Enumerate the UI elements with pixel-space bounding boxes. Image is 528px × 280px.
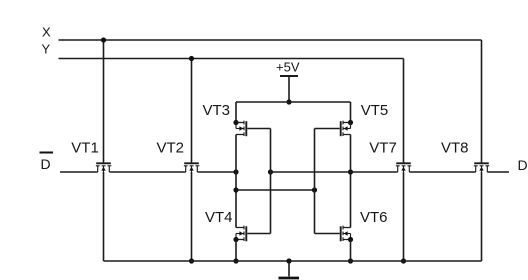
wire VT1 to VT2: [109, 171, 185, 173]
node A chain VT3-VT4: [235, 135, 237, 228]
wire cross-coupling A to VT5 VT6 gates: [236, 189, 315, 191]
svg-text:VT6: VT6: [360, 209, 388, 226]
transistor VT1: [71, 139, 111, 172]
wire VT5 gate lead: [315, 128, 340, 130]
wire rail to VT3 drain: [235, 102, 237, 123]
wire VT2 to node A: [197, 171, 236, 173]
wire VT2 gate from Y: [191, 59, 193, 163]
wire VT8 body to ground rail: [481, 172, 483, 261]
svg-text:X: X: [42, 24, 51, 39]
wire node B to VT7: [271, 171, 398, 173]
wire VT4 source to rail: [235, 240, 237, 262]
transistor VT8: [441, 139, 489, 172]
wire bottom ground rail: [104, 260, 482, 262]
junction node A line2: [233, 187, 238, 192]
power +5V terminal: [280, 75, 298, 77]
junction node A bus: [233, 169, 238, 174]
junction line2 gates A: [312, 187, 317, 192]
wire VT7 gate from Y: [403, 59, 405, 163]
node B chain VT5-VT6: [350, 135, 352, 228]
wire +5V to top rail: [288, 76, 290, 102]
transistor VT5: [341, 102, 389, 136]
wire VT8 gate from X: [481, 40, 483, 163]
transistor VT2: [157, 139, 200, 172]
wire gates vertical VT5 VT6: [314, 129, 316, 234]
svg-text:Y: Y: [42, 41, 51, 56]
ground: [279, 277, 300, 280]
transistor VT6: [341, 209, 388, 241]
wire VT4 gate lead: [247, 233, 270, 235]
svg-text:VT8: VT8: [441, 139, 469, 156]
junction VT3 drain-body: [233, 120, 238, 125]
svg-text:VT7: VT7: [369, 139, 397, 156]
junction Y-VT2: [189, 56, 194, 61]
wire VT8 to D output: [487, 171, 509, 173]
wire VT7 to VT8: [409, 171, 475, 173]
wire X line: [59, 39, 482, 41]
wire rail to VT5 drain: [350, 102, 352, 123]
junction VT5 drain-body: [348, 120, 353, 125]
svg-text:VT2: VT2: [157, 139, 185, 156]
junction VT7 body-rail: [401, 258, 406, 263]
wire gates vertical VT3 VT4: [270, 129, 272, 234]
wire VT2 body to ground rail: [191, 172, 193, 261]
junction VT6-rail: [348, 258, 353, 263]
transistor VT3: [203, 102, 247, 136]
junction +5V rail: [286, 99, 291, 104]
svg-text:+5V: +5V: [276, 60, 300, 75]
junction VT2 body-rail: [189, 258, 194, 263]
svg-text:VT1: VT1: [71, 139, 99, 156]
junction VT6 source-body: [348, 237, 353, 242]
junction X-VT1: [101, 37, 106, 42]
svg-text:D: D: [41, 156, 51, 172]
transistor VT7: [369, 139, 411, 172]
wire VT1 body to ground rail: [103, 172, 105, 261]
wire VT7 body to ground rail: [403, 172, 405, 261]
junction VT4 source-body: [233, 237, 238, 242]
wire VT6 gate lead: [315, 233, 340, 235]
svg-text:VT3: VT3: [203, 102, 231, 119]
svg-text:VT4: VT4: [205, 209, 233, 226]
svg-text:VT5: VT5: [361, 102, 389, 119]
wire Y line: [59, 58, 404, 60]
wire top supply rail: [236, 101, 351, 103]
wire VT1 gate from X: [103, 40, 105, 163]
junction VT4-rail: [233, 258, 238, 263]
junction gates B bus: [268, 169, 273, 174]
junction ground rail tap: [286, 258, 291, 263]
wire D-bar input: [60, 171, 98, 173]
junction node B bus: [348, 169, 353, 174]
node D-bar label: [40, 152, 54, 172]
wire VT6 source to rail: [350, 240, 352, 262]
svg-text:D: D: [518, 157, 528, 173]
wire VT3 gate lead: [247, 128, 270, 130]
wire rail to ground: [288, 261, 290, 276]
transistor VT4: [205, 209, 246, 241]
